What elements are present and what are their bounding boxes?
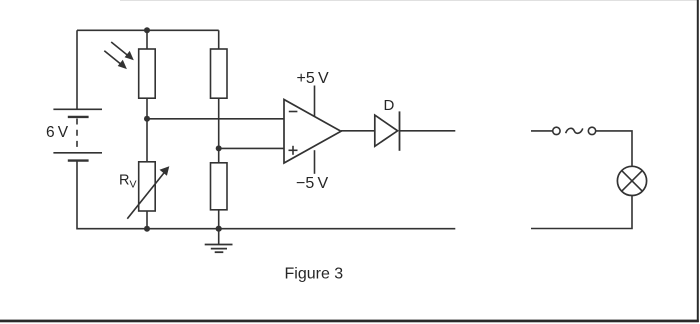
- wire lamp to bottom return: [531, 196, 632, 229]
- svg-text:+5 V: +5 V: [297, 70, 329, 87]
- node RV bottom junction: [144, 226, 150, 232]
- wire lower resistor to bottom rail: [218, 210, 220, 229]
- svg-text:RV: RV: [119, 172, 137, 190]
- wire diode to output terminal: [400, 130, 456, 132]
- op-amp U1: [284, 100, 341, 164]
- resistor R top (fixed divider): [211, 49, 228, 98]
- variable resistor RV body: [139, 162, 156, 211]
- wire AC supply left terminal: [531, 130, 553, 132]
- wire top rail to resistor R: [218, 30, 220, 49]
- battery B1 (6 V): [53, 109, 102, 160]
- page bottom border: [0, 320, 699, 323]
- resistor R bottom (fixed divider): [211, 163, 228, 210]
- svg-text:Figure 3: Figure 3: [285, 266, 344, 283]
- svg-text:6 V: 6 V: [46, 124, 69, 141]
- wire R to lower resistor: [218, 98, 220, 163]
- wire op-amp output to diode: [341, 130, 375, 132]
- LDR light arrow 1: [111, 42, 134, 60]
- lamp L1: [617, 166, 646, 195]
- op-amp -5V supply pin: [314, 150, 316, 174]
- op-amp +5V supply pin: [314, 86, 316, 117]
- AC supply tilde: [566, 128, 583, 133]
- wire node to LDR: [146, 30, 148, 49]
- wire to op-amp inverting input: [147, 118, 284, 120]
- svg-text:D: D: [384, 97, 395, 114]
- wire LDR to RV: [146, 98, 148, 162]
- node inverting input junction: [144, 116, 150, 122]
- node non-inverting input junction: [216, 145, 222, 151]
- wire to op-amp non-inverting input: [219, 147, 284, 149]
- LDR body: [139, 49, 156, 98]
- top edge faint rule: [120, 0, 698, 1]
- wire top rail: [77, 29, 219, 31]
- wire AC supply right to lamp: [596, 131, 632, 166]
- page right border: [697, 0, 699, 322]
- svg-text:−5 V: −5 V: [296, 175, 328, 192]
- LDR light arrow 2: [104, 51, 127, 69]
- variable resistor RV arrow: [127, 166, 169, 218]
- ground: [205, 229, 233, 253]
- wire RV to bottom rail: [146, 211, 148, 229]
- AC supply terminal circle right: [588, 127, 595, 134]
- node ground junction: [216, 226, 222, 232]
- node top rail / LDR junction: [144, 27, 150, 33]
- diode D: [375, 111, 400, 150]
- AC supply terminal circle left: [553, 127, 560, 134]
- wire bottom rail: [77, 161, 455, 229]
- wire battery top to top rail: [76, 30, 78, 109]
